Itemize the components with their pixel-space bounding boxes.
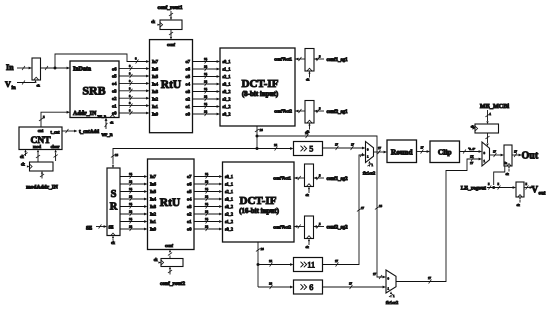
svg-text:16: 16 (115, 153, 119, 157)
svg-text:16: 16 (129, 202, 133, 206)
svg-text:In1: In1 (152, 104, 158, 109)
svg-text:s3_2: s3_2 (223, 89, 231, 94)
svg-text:o0: o0 (187, 227, 192, 232)
svg-text:16: 16 (205, 210, 209, 214)
svg-text:s3_2: s3_2 (225, 204, 233, 209)
svg-text:In3: In3 (152, 89, 159, 94)
svg-text:confVect1: confVect1 (273, 176, 291, 181)
svg-text:o5: o5 (186, 74, 191, 79)
svg-text:o1: o1 (112, 103, 117, 108)
svg-text:16: 16 (129, 210, 133, 214)
svg-text:conf: conf (165, 243, 173, 248)
svg-text:ck: ck (517, 203, 521, 207)
svg-text:In1: In1 (150, 219, 156, 224)
svg-text:16: 16 (205, 217, 209, 221)
svg-text:ck: ck (37, 84, 41, 88)
svg-text:In4: In4 (150, 197, 157, 202)
svg-text:s0_1: s0_1 (225, 174, 233, 179)
svg-text:17: 17 (361, 206, 365, 210)
svg-text:s2_2: s2_2 (225, 212, 233, 217)
svg-text:V: V (5, 80, 11, 89)
svg-text:In6: In6 (150, 182, 157, 187)
svg-text:DCT-IF: DCT-IF (242, 78, 279, 90)
svg-text:(16-bit input): (16-bit input) (239, 207, 280, 215)
svg-text:In0: In0 (150, 227, 157, 232)
svg-text:s2_2: s2_2 (223, 97, 231, 102)
svg-text:ck: ck (20, 154, 24, 159)
svg-text:RtU: RtU (160, 197, 181, 209)
svg-text:o4: o4 (186, 82, 191, 87)
svg-text:Clip: Clip (438, 148, 452, 157)
svg-text:wr_n: wr_n (98, 113, 108, 118)
svg-text:wr_n: wr_n (101, 133, 112, 138)
svg-text:ck: ck (306, 193, 310, 197)
svg-text:s3_1: s3_1 (223, 82, 231, 87)
svg-text:o1: o1 (186, 104, 191, 109)
svg-text:conf_rout1: conf_rout1 (157, 5, 182, 11)
svg-text:conf2_sg2: conf2_sg2 (327, 226, 349, 231)
svg-text:flr1or2: flr1or2 (386, 300, 399, 305)
svg-text:16: 16 (261, 247, 265, 251)
svg-text:17: 17 (335, 259, 339, 263)
svg-text:ck: ck (154, 257, 158, 262)
svg-text:16: 16 (204, 65, 208, 69)
svg-text:o4: o4 (187, 197, 192, 202)
svg-text:In6: In6 (152, 67, 159, 72)
svg-text:16: 16 (379, 204, 383, 208)
svg-text:ME_MCBi: ME_MCBi (480, 103, 509, 110)
svg-text:17: 17 (493, 149, 497, 153)
svg-text:16: 16 (129, 187, 133, 191)
svg-text:o2: o2 (186, 97, 191, 102)
svg-text:s0_2: s0_2 (225, 227, 233, 232)
svg-text:In5: In5 (150, 189, 157, 194)
svg-text:17: 17 (514, 149, 518, 153)
svg-text:confVect2: confVect2 (273, 225, 291, 230)
svg-text:confVect2: confVect2 (274, 109, 292, 114)
svg-text:o3: o3 (187, 204, 192, 209)
svg-text:conf1_sg2: conf1_sg2 (327, 177, 349, 182)
svg-text:conf_rout2: conf_rout2 (160, 281, 185, 287)
svg-text:o5: o5 (112, 74, 117, 79)
svg-text:Out: Out (522, 151, 539, 162)
svg-text:o3: o3 (112, 89, 117, 94)
svg-text:s2_1: s2_1 (225, 189, 233, 194)
svg-text:In7: In7 (152, 59, 159, 64)
svg-text:s2_1: s2_1 (223, 74, 231, 79)
svg-text:SE: SE (86, 227, 93, 232)
svg-text:in: in (12, 86, 16, 91)
svg-text:16: 16 (204, 102, 208, 106)
svg-text:o2: o2 (112, 96, 117, 101)
svg-text:16: 16 (269, 282, 273, 286)
svg-text:ck: ck (151, 19, 155, 24)
svg-text:mod: mod (33, 144, 42, 149)
svg-text:V: V (532, 185, 539, 195)
svg-text:16: 16 (205, 225, 209, 229)
svg-text:16: 16 (204, 110, 208, 114)
svg-text:conf: conf (167, 42, 175, 47)
svg-text:5: 5 (309, 145, 313, 154)
svg-text:SRB: SRB (82, 84, 105, 98)
svg-text:o3: o3 (186, 89, 191, 94)
svg-text:In5: In5 (152, 74, 159, 79)
svg-text:flr1or2: flr1or2 (363, 171, 376, 176)
svg-text:16: 16 (129, 180, 133, 184)
svg-text:16: 16 (204, 95, 208, 99)
svg-text:16: 16 (129, 217, 133, 221)
svg-text:o7: o7 (187, 174, 192, 179)
svg-text:16: 16 (129, 172, 133, 176)
svg-text:o4: o4 (112, 81, 117, 86)
svg-text:ck: ck (306, 245, 310, 249)
svg-text:confVect1: confVect1 (274, 57, 292, 62)
svg-text:6: 6 (309, 283, 313, 292)
svg-text:s0_1: s0_1 (223, 59, 231, 64)
svg-text:DCT-IF: DCT-IF (240, 195, 277, 207)
svg-text:17: 17 (378, 146, 382, 150)
svg-text:s3_1: s3_1 (225, 197, 233, 202)
svg-text:s1_2: s1_2 (225, 219, 233, 224)
svg-text:o0: o0 (186, 112, 191, 117)
svg-text:16: 16 (205, 202, 209, 206)
svg-text:o6: o6 (187, 182, 192, 187)
svg-text:o2: o2 (187, 212, 192, 217)
svg-text:o5: o5 (187, 189, 192, 194)
svg-text:ck: ck (506, 172, 510, 176)
svg-text:ck: ck (306, 78, 310, 82)
svg-text:s1_2: s1_2 (223, 104, 231, 109)
svg-text:16: 16 (205, 195, 209, 199)
svg-text:ck: ck (21, 161, 25, 166)
svg-text:ck: ck (111, 240, 115, 245)
svg-text:11: 11 (307, 261, 315, 270)
svg-text:Round: Round (391, 148, 414, 157)
svg-text:16: 16 (260, 128, 264, 132)
svg-text:16: 16 (129, 195, 133, 199)
svg-text:16: 16 (204, 72, 208, 76)
svg-text:16: 16 (204, 57, 208, 61)
svg-text:In0: In0 (152, 112, 159, 117)
svg-text:cnt: cnt (38, 128, 44, 133)
svg-text:InData: InData (73, 67, 91, 73)
svg-text:In2: In2 (152, 97, 158, 102)
svg-text:17: 17 (351, 142, 355, 146)
svg-text:RtU: RtU (161, 79, 182, 91)
svg-text:conf2_sg1: conf2_sg1 (327, 110, 349, 115)
svg-text:Addr_IN: Addr_IN (73, 111, 97, 117)
svg-text:out: out (539, 192, 546, 197)
svg-text:o7: o7 (186, 59, 191, 64)
svg-text:17: 17 (373, 272, 377, 276)
svg-text:o6: o6 (186, 67, 191, 72)
svg-text:In7: In7 (150, 174, 157, 179)
svg-text:16: 16 (205, 180, 209, 184)
svg-text:16: 16 (205, 187, 209, 191)
svg-text:16: 16 (205, 172, 209, 176)
svg-text:o6: o6 (112, 66, 117, 71)
svg-text:modAddr_IN: modAddr_IN (26, 185, 58, 191)
svg-text:17: 17 (335, 142, 339, 146)
svg-text:16: 16 (204, 80, 208, 84)
svg-text:LE_regout: LE_regout (461, 186, 486, 192)
svg-text:conf1_sg1: conf1_sg1 (327, 58, 349, 63)
svg-text:16: 16 (274, 143, 278, 147)
svg-text:clear: clear (51, 144, 60, 149)
svg-text:16: 16 (305, 131, 309, 135)
svg-text:17: 17 (421, 146, 425, 150)
svg-text:16: 16 (204, 87, 208, 91)
svg-text:ck: ck (110, 121, 114, 125)
svg-text:s0_2: s0_2 (223, 112, 231, 117)
svg-text:16: 16 (129, 225, 133, 229)
svg-text:In2: In2 (150, 212, 156, 217)
svg-text:S: S (111, 189, 117, 200)
svg-text:t_cntAdd: t_cntAdd (79, 130, 99, 135)
svg-text:17: 17 (470, 161, 474, 165)
svg-text:In: In (6, 63, 14, 72)
svg-text:17: 17 (349, 282, 353, 286)
svg-text:In4: In4 (152, 82, 159, 87)
svg-text:o1: o1 (187, 219, 192, 224)
svg-text:16: 16 (269, 259, 273, 263)
svg-text:‘0..0’: ‘0..0’ (468, 146, 475, 151)
svg-text:R: R (110, 202, 118, 213)
svg-text:s1_1: s1_1 (225, 182, 233, 187)
svg-text:t_cnt: t_cnt (51, 130, 61, 135)
svg-text:s1_1: s1_1 (223, 67, 231, 72)
svg-text:In3: In3 (150, 204, 157, 209)
svg-text:17: 17 (428, 276, 432, 280)
svg-text:SE: SE (109, 225, 114, 230)
svg-text:(8-bit input): (8-bit input) (242, 90, 279, 98)
